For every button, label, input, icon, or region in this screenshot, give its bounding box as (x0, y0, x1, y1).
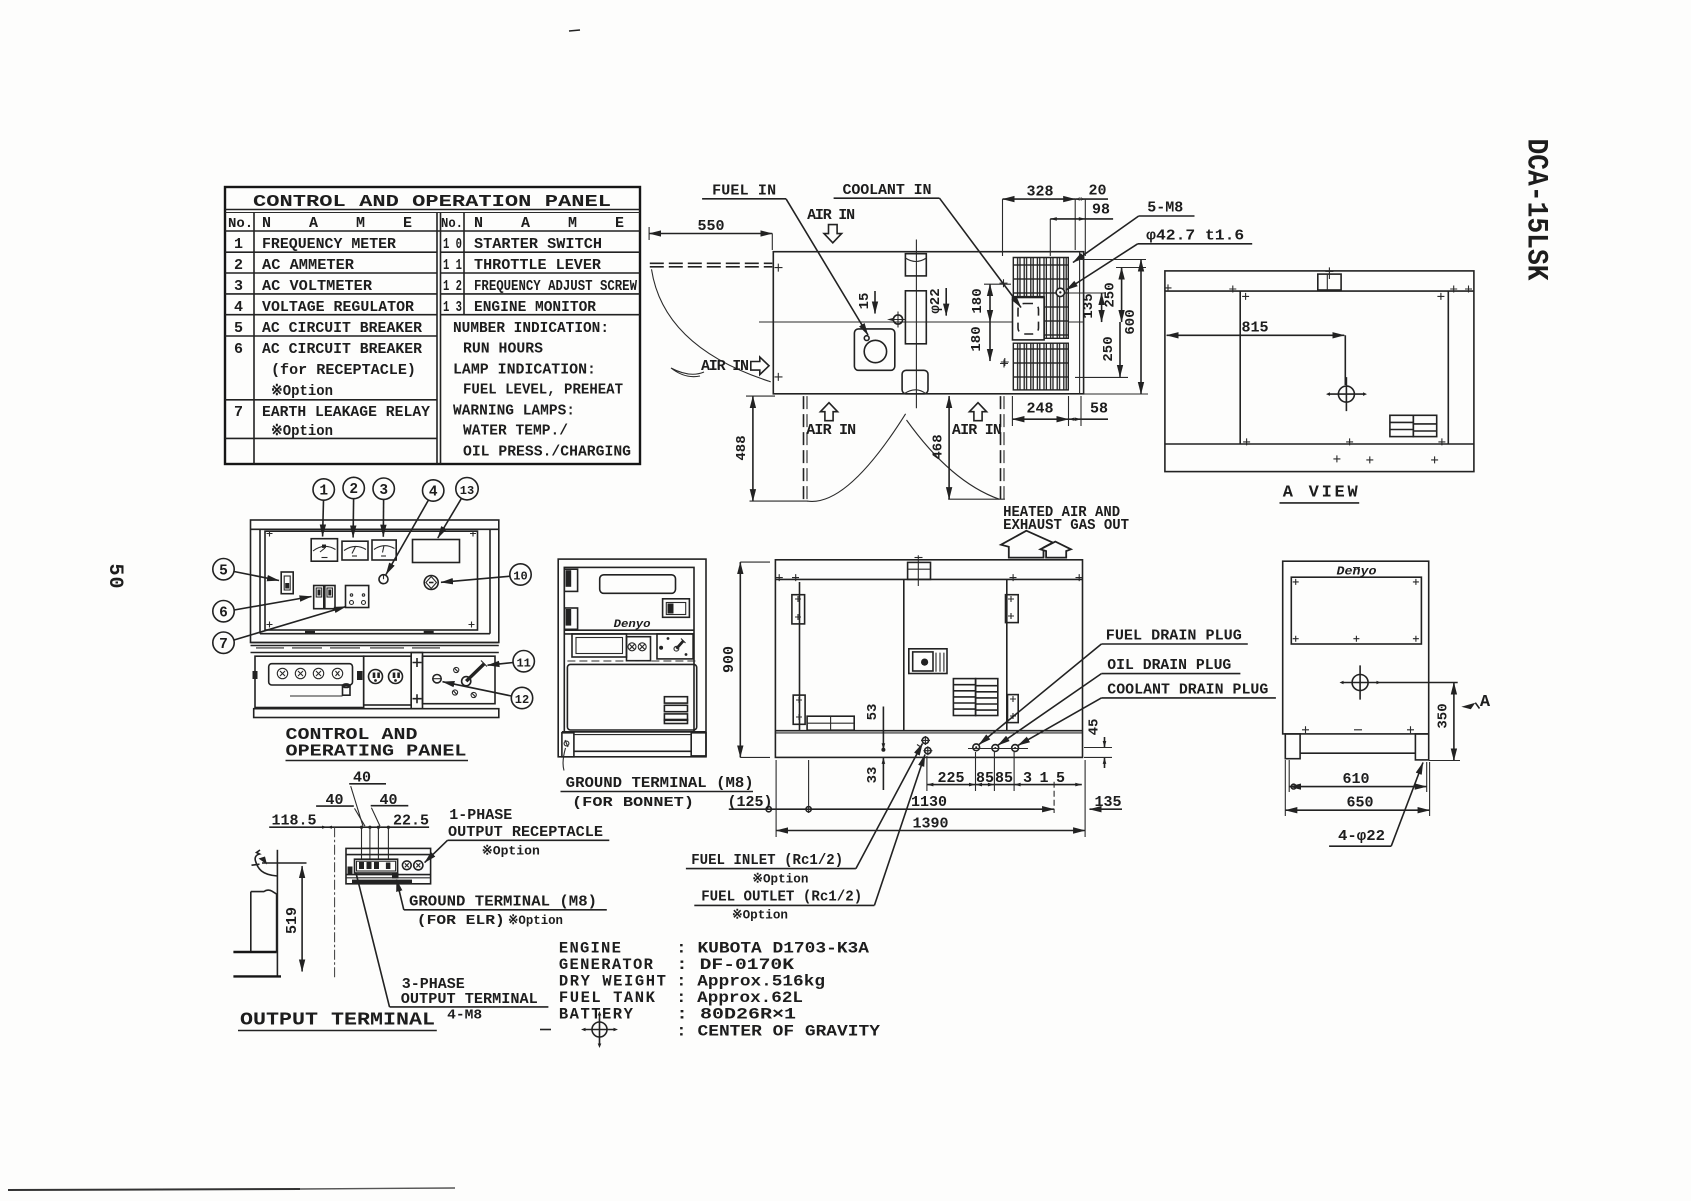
dim 900 (739, 562, 741, 757)
svg-text:※Option: ※Option (482, 844, 540, 859)
row lines right half (440, 251, 640, 253)
roof band line (775, 578, 1082, 580)
receptacle sockets (277, 668, 342, 678)
svg-text:4: 4 (234, 299, 243, 316)
body bottom / base band (775, 730, 1082, 732)
svg-text:6: 6 (219, 605, 228, 621)
svg-text:NUMBER INDICATION:: NUMBER INDICATION: (453, 320, 609, 337)
vertical dividers (253, 213, 255, 464)
svg-text:OIL DRAIN PLUG: OIL DRAIN PLUG (1107, 657, 1231, 674)
outer (1283, 561, 1429, 734)
svg-text:※Option: ※Option (752, 872, 808, 887)
svg-text:: DF-0170K: : DF-0170K (676, 956, 795, 974)
bottom dashed door lines (803, 396, 805, 501)
lower mid receptacle panel (364, 656, 412, 705)
callout 11 (513, 651, 534, 672)
svg-text:468: 468 (931, 434, 947, 459)
body outer (775, 560, 1082, 758)
svg-text:: KUBOTA D1703-K3A: : KUBOTA D1703-K3A (676, 940, 870, 958)
svg-text:610: 610 (1342, 771, 1369, 788)
callout 12 (511, 687, 532, 708)
roof + ticks (776, 574, 1083, 581)
svg-text:OUTPUT TERMINAL: OUTPUT TERMINAL (240, 1011, 435, 1031)
bottom ticks (750, 500, 809, 502)
svg-text:5-M8: 5-M8 (1147, 200, 1183, 217)
callout 10 (510, 564, 531, 585)
vertical extension from dim to box (334, 827, 336, 978)
dim line (125)/1130/135 (729, 808, 1054, 810)
svg-text:AIR IN: AIR IN (701, 358, 749, 375)
svg-text:3: 3 (379, 483, 388, 499)
frequency meter 1 (311, 539, 337, 562)
dim 600 (1140, 260, 1142, 395)
svg-text:※Option: ※Option (732, 908, 788, 923)
small stray mark at top (569, 30, 580, 31)
svg-text:13: 13 (460, 484, 474, 498)
svg-text:LAMP INDICATION:: LAMP INDICATION: (453, 362, 596, 379)
AC ammeter 2 (342, 541, 368, 560)
svg-text:1130: 1130 (911, 794, 947, 811)
svg-text:OUTPUT RECEPTACLE: OUTPUT RECEPTACLE (448, 824, 603, 841)
dark latch left (253, 671, 258, 679)
extension verticals (1284, 760, 1286, 816)
svg-text:1 3: 1 3 (443, 299, 462, 316)
dim 53 (882, 707, 884, 750)
svg-text:OIL PRESS./CHARGING: OIL PRESS./CHARGING (463, 444, 631, 461)
dim 45 (1104, 737, 1106, 748)
dim 468 (948, 396, 950, 499)
dim 550 (649, 233, 772, 235)
svg-text:250: 250 (1101, 336, 1117, 361)
bottom scan artifact line (8, 1189, 300, 1190)
hook arrowhead (259, 857, 268, 865)
svg-text:OPERATING PANEL: OPERATING PANEL (286, 743, 467, 762)
callout 5 (213, 559, 234, 580)
svg-text:135: 135 (1094, 794, 1121, 811)
bottom inner line (1165, 443, 1474, 445)
bottom band (254, 709, 499, 718)
dim 15 (874, 291, 876, 314)
svg-text:1: 1 (319, 484, 328, 500)
svg-text:A: A (1480, 693, 1491, 712)
svg-text:: 80D26R×1: : 80D26R×1 (676, 1006, 796, 1024)
svg-text:180: 180 (970, 288, 986, 313)
hook profile (255, 850, 277, 876)
bottom AIR IN labels (820, 403, 837, 421)
svg-text:4-φ22: 4-φ22 (1338, 828, 1385, 845)
svg-text:11: 11 (516, 656, 530, 670)
svg-text:600: 600 (1123, 309, 1139, 334)
fuel inlet/outlet fittings (922, 737, 931, 754)
svg-text:CONTROL AND OPERATION PANEL: CONTROL AND OPERATION PANEL (253, 193, 611, 212)
svg-text:33: 33 (865, 767, 881, 784)
svg-text:WARNING LAMPS:: WARNING LAMPS: (453, 403, 575, 420)
callout circles and leaders (213, 477, 535, 708)
line from CG to 350 dim (1377, 682, 1458, 684)
svg-text:(for RECEPTACLE): (for RECEPTACLE) (271, 362, 416, 379)
muffler bottom part (902, 370, 928, 394)
dim 250 lower (1119, 322, 1121, 377)
svg-text:248: 248 (1026, 401, 1053, 418)
AC voltmeter 3 (372, 540, 396, 560)
svg-text:85: 85 (976, 770, 994, 787)
CG symbol (1340, 665, 1381, 699)
svg-text:GENERATOR: GENERATOR (559, 956, 654, 974)
svg-text:AC CIRCUIT BREAKER: AC CIRCUIT BREAKER (262, 320, 422, 337)
dim 180 upper/lower (989, 284, 991, 322)
svg-text:COOLANT IN: COOLANT IN (843, 182, 932, 199)
svg-text:1-PHASE: 1-PHASE (449, 807, 512, 824)
panel left inner vertical (259, 529, 261, 633)
drain plugs (973, 744, 1019, 752)
svg-text:φ42.7 t1.6: φ42.7 t1.6 (1146, 228, 1244, 245)
svg-text:98: 98 (1092, 202, 1110, 219)
svg-text:1 1: 1 1 (443, 257, 462, 274)
svg-text:DRY WEIGHT: DRY WEIGHT (559, 973, 666, 991)
panel enclosure outer box (251, 520, 499, 643)
bottom dim chain 225/85/85/315 (927, 784, 1082, 786)
panel face plate (265, 531, 478, 630)
radiator cap panel (1013, 298, 1045, 340)
dim 1390 (776, 830, 1085, 832)
svg-text:No.: No. (441, 216, 463, 232)
svg-text:225: 225 (937, 770, 964, 787)
main horizontal dim line (269, 826, 429, 828)
svg-text:φ22: φ22 (928, 288, 944, 313)
heated air arrow small (1040, 542, 1071, 558)
svg-text:FUEL LEVEL, PREHEAT: FUEL LEVEL, PREHEAT (463, 382, 623, 399)
double right edge (1079, 252, 1081, 394)
window (1291, 577, 1421, 644)
svg-text:EXHAUST GAS OUT: EXHAUST GAS OUT (1003, 517, 1129, 534)
svg-text:650: 650 (1346, 795, 1373, 812)
lower left receptacle panel (255, 656, 364, 707)
svg-text:12: 12 (515, 693, 529, 707)
GROUND TERMINAL (FOR BONNET) label (563, 748, 565, 771)
callout 13 (456, 478, 478, 500)
corner + ticks (775, 264, 1009, 381)
svg-text:No.: No. (228, 216, 253, 232)
throttle lever 11 (466, 664, 484, 682)
svg-text:COOLANT DRAIN PLUG: COOLANT DRAIN PLUG (1107, 681, 1268, 698)
svg-text:5: 5 (234, 320, 243, 337)
switch box (663, 599, 690, 618)
CONTROL AND OPERATING PANEL caption (286, 726, 469, 762)
door swing arc (652, 269, 771, 382)
centerline horizontal (759, 321, 1084, 323)
svg-text:315: 315 (1023, 770, 1065, 787)
title row line (225, 209, 640, 211)
base (562, 731, 706, 733)
header row bottom line (225, 230, 640, 232)
terminal box (346, 848, 431, 883)
svg-text:488: 488 (734, 435, 750, 460)
engine monitor 13 (413, 540, 460, 563)
svg-text:1 2: 1 2 (443, 278, 462, 295)
svg-text:RUN HOURS: RUN HOURS (463, 341, 543, 358)
svg-text:135: 135 (1081, 293, 1097, 318)
svg-text:1390: 1390 (912, 816, 948, 833)
svg-text:FREQUENCY METER: FREQUENCY METER (262, 236, 396, 253)
svg-text:OUTPUT TERMINAL: OUTPUT TERMINAL (401, 991, 538, 1008)
roof vent box (908, 562, 931, 579)
svg-text:Denyo: Denyo (1337, 565, 1377, 579)
dim 135 (1101, 293, 1103, 322)
panel screws (452, 667, 476, 697)
top vent box (1318, 274, 1341, 290)
svg-text:1 0: 1 0 (443, 236, 462, 253)
AC circuit breaker 5 (rocker) (281, 572, 293, 594)
radiator grille lower (1013, 343, 1068, 390)
inner verticals (1239, 291, 1241, 444)
svg-text:550: 550 (697, 218, 724, 235)
svg-text:FUEL DRAIN PLUG: FUEL DRAIN PLUG (1106, 628, 1242, 645)
mid panels (572, 634, 627, 657)
svg-text:45: 45 (1087, 719, 1103, 736)
svg-text:4-M8: 4-M8 (447, 1008, 482, 1024)
outer rect (1165, 271, 1474, 472)
louver bottom right (1390, 415, 1437, 436)
roof line (1165, 290, 1474, 292)
main wall vertical (276, 850, 278, 976)
earth leakage relay 7 (346, 586, 369, 608)
svg-text:※Option: ※Option (508, 913, 563, 928)
AC circuit breaker 6 (pair) (314, 586, 335, 609)
svg-text:3: 3 (234, 278, 243, 295)
svg-text:2: 2 (234, 257, 243, 274)
callout 7 (213, 632, 234, 653)
svg-text:DCA-15LSK: DCA-15LSK (1519, 139, 1553, 281)
svg-text:250: 250 (1103, 282, 1119, 307)
svg-text:STARTER SWITCH: STARTER SWITCH (474, 236, 602, 253)
terminal studs (359, 862, 390, 869)
svg-text:20: 20 (1088, 183, 1106, 200)
door swing arcs (807, 414, 905, 502)
engine monitor window (909, 649, 947, 674)
CG legend symbol (540, 1011, 618, 1048)
svg-text:58: 58 (1090, 401, 1108, 418)
dashed gasket line (256, 647, 440, 649)
svg-text:N A M E: N A M E (262, 215, 412, 232)
louver vent grid (953, 679, 997, 716)
svg-text:815: 815 (1241, 320, 1268, 337)
outer (558, 559, 706, 757)
receptacle plate (355, 859, 398, 873)
svg-text:FUEL OUTLET (Rc1/2): FUEL OUTLET (Rc1/2) (701, 889, 862, 906)
dim 250 upper (1121, 268, 1123, 323)
face corner screws (267, 531, 477, 628)
main body rect (773, 252, 1083, 394)
svg-text:ENGINE: ENGINE (559, 940, 621, 958)
panel top inner line (251, 528, 499, 530)
svg-text:FREQUENCY ADJUST SCREW: FREQUENCY ADJUST SCREW (474, 278, 637, 295)
voltage regulator knob 4 (379, 575, 388, 584)
svg-text:AC CIRCUIT BREAKER: AC CIRCUIT BREAKER (262, 341, 422, 358)
dim 815 (1167, 334, 1345, 336)
svg-text:BATTERY: BATTERY (559, 1006, 634, 1024)
dim 610 (1289, 786, 1427, 788)
lower right panel (423, 656, 496, 704)
svg-text:900: 900 (721, 646, 738, 673)
floor lines (233, 951, 276, 953)
panel right inner vertical (489, 529, 491, 633)
svg-text:7: 7 (219, 637, 228, 653)
svg-text:: Approx.516kg: : Approx.516kg (676, 973, 825, 991)
1-phase receptacles (402, 861, 411, 870)
svg-text:GROUND TERMINAL (M8): GROUND TERMINAL (M8) (566, 775, 754, 792)
muffler top part (905, 254, 926, 276)
bottom ticks (1302, 726, 1414, 733)
panel face bottom lines (260, 633, 490, 635)
centerline vertical (915, 240, 917, 409)
mid band (564, 629, 694, 631)
CG symbol (1326, 377, 1367, 411)
svg-text:AC AMMETER: AC AMMETER (262, 257, 354, 274)
fuel filler box (854, 329, 894, 370)
ground bolt (564, 741, 569, 746)
table outer border (225, 187, 640, 464)
svg-text:5: 5 (219, 563, 228, 579)
lower channel (251, 890, 277, 952)
freq adjust screw 12 (433, 675, 441, 683)
fuel filler cap (864, 340, 886, 362)
svg-text:EARTH LEAKAGE RELAY: EARTH LEAKAGE RELAY (262, 404, 430, 421)
svg-text:4: 4 (429, 485, 438, 501)
svg-text:GROUND TERMINAL (M8): GROUND TERMINAL (M8) (409, 894, 597, 911)
svg-text:1: 1 (234, 236, 243, 253)
center of gravity mark on centerline (893, 315, 902, 324)
row lines left half (225, 251, 437, 253)
svg-text:: CENTER OF GRAVITY: : CENTER OF GRAVITY (676, 1023, 881, 1041)
heated air arrow large (1001, 531, 1053, 558)
svg-text:85: 85 (995, 770, 1013, 787)
svg-text:FUEL IN: FUEL IN (712, 183, 776, 200)
svg-text:519: 519 (284, 907, 301, 934)
svg-text:AIR IN: AIR IN (807, 207, 855, 224)
hinges (564, 569, 577, 591)
dim 350 (1453, 683, 1455, 761)
svg-text:FUEL INLET (Rc1/2): FUEL INLET (Rc1/2) (691, 852, 843, 869)
svg-text:VOLTAGE REGULATOR: VOLTAGE REGULATOR (262, 299, 414, 316)
box bottom details (346, 874, 431, 876)
vertical to CG (1344, 335, 1346, 385)
mid band (251, 645, 499, 647)
lower door (567, 664, 696, 730)
ground stud cylinder (343, 686, 351, 696)
svg-text:FUEL TANK: FUEL TANK (559, 989, 656, 1007)
open door dashed (650, 262, 773, 264)
inner frame (564, 567, 694, 731)
svg-text:※Option: ※Option (271, 423, 333, 440)
display window (600, 575, 676, 594)
tabs under face (305, 631, 315, 634)
louver slats (664, 697, 687, 724)
svg-text:180: 180 (969, 326, 985, 351)
dim 33 (882, 757, 884, 790)
svg-text:: Approx.62L: : Approx.62L (676, 989, 803, 1007)
feet (1285, 734, 1300, 759)
svg-text:ENGINE MONITOR: ENGINE MONITOR (474, 299, 596, 316)
svg-text:328: 328 (1026, 184, 1053, 201)
svg-text:WATER TEMP./: WATER TEMP./ (463, 423, 568, 440)
svg-text:AC VOLTMETER: AC VOLTMETER (262, 278, 372, 295)
separator bar with + (411, 653, 422, 709)
svg-text:(FOR BONNET): (FOR BONNET) (572, 795, 694, 811)
right side dims: reference line (1078, 259, 1146, 261)
+ ticks (1165, 284, 1473, 463)
svg-text:THROTTLE LEVER: THROTTLE LEVER (474, 257, 601, 274)
svg-text:AIR IN: AIR IN (952, 422, 1002, 439)
svg-text:15: 15 (857, 293, 873, 310)
svg-text:※Option: ※Option (271, 383, 333, 400)
svg-text:(125): (125) (727, 794, 772, 811)
dim 519 (301, 866, 303, 971)
left door bottom vent (807, 716, 854, 730)
door verticals (799, 582, 801, 731)
svg-text:A VIEW: A VIEW (1283, 484, 1359, 503)
svg-text:50: 50 (103, 564, 126, 589)
svg-text:(FOR ELR): (FOR ELR) (417, 913, 505, 929)
svg-text:AIR IN: AIR IN (806, 422, 856, 439)
callout 1 (313, 479, 334, 500)
svg-text:Denyo: Denyo (614, 619, 651, 631)
callout 4 (423, 480, 444, 501)
svg-text:350: 350 (1436, 703, 1452, 728)
dim 488 (752, 396, 754, 501)
svg-text:6: 6 (234, 341, 243, 358)
reference line at hook (262, 862, 307, 864)
dim phi22 (945, 288, 947, 316)
hinges (792, 595, 1018, 725)
svg-text:N A M E: N A M E (474, 215, 624, 232)
callout 3 (373, 478, 394, 499)
svg-text:53: 53 (865, 704, 881, 721)
svg-text:2: 2 (349, 482, 358, 498)
svg-text:7: 7 (234, 404, 243, 421)
callout 2 (343, 477, 364, 498)
phi42.7 exhaust circle (1056, 288, 1064, 296)
starter switch 10 (424, 576, 438, 590)
radiator grille upper (L-shape) (1013, 258, 1068, 339)
muffler mid part (905, 291, 926, 344)
callout 6 (213, 601, 234, 622)
dim 650 (1285, 809, 1429, 811)
svg-text:10: 10 (513, 570, 527, 584)
